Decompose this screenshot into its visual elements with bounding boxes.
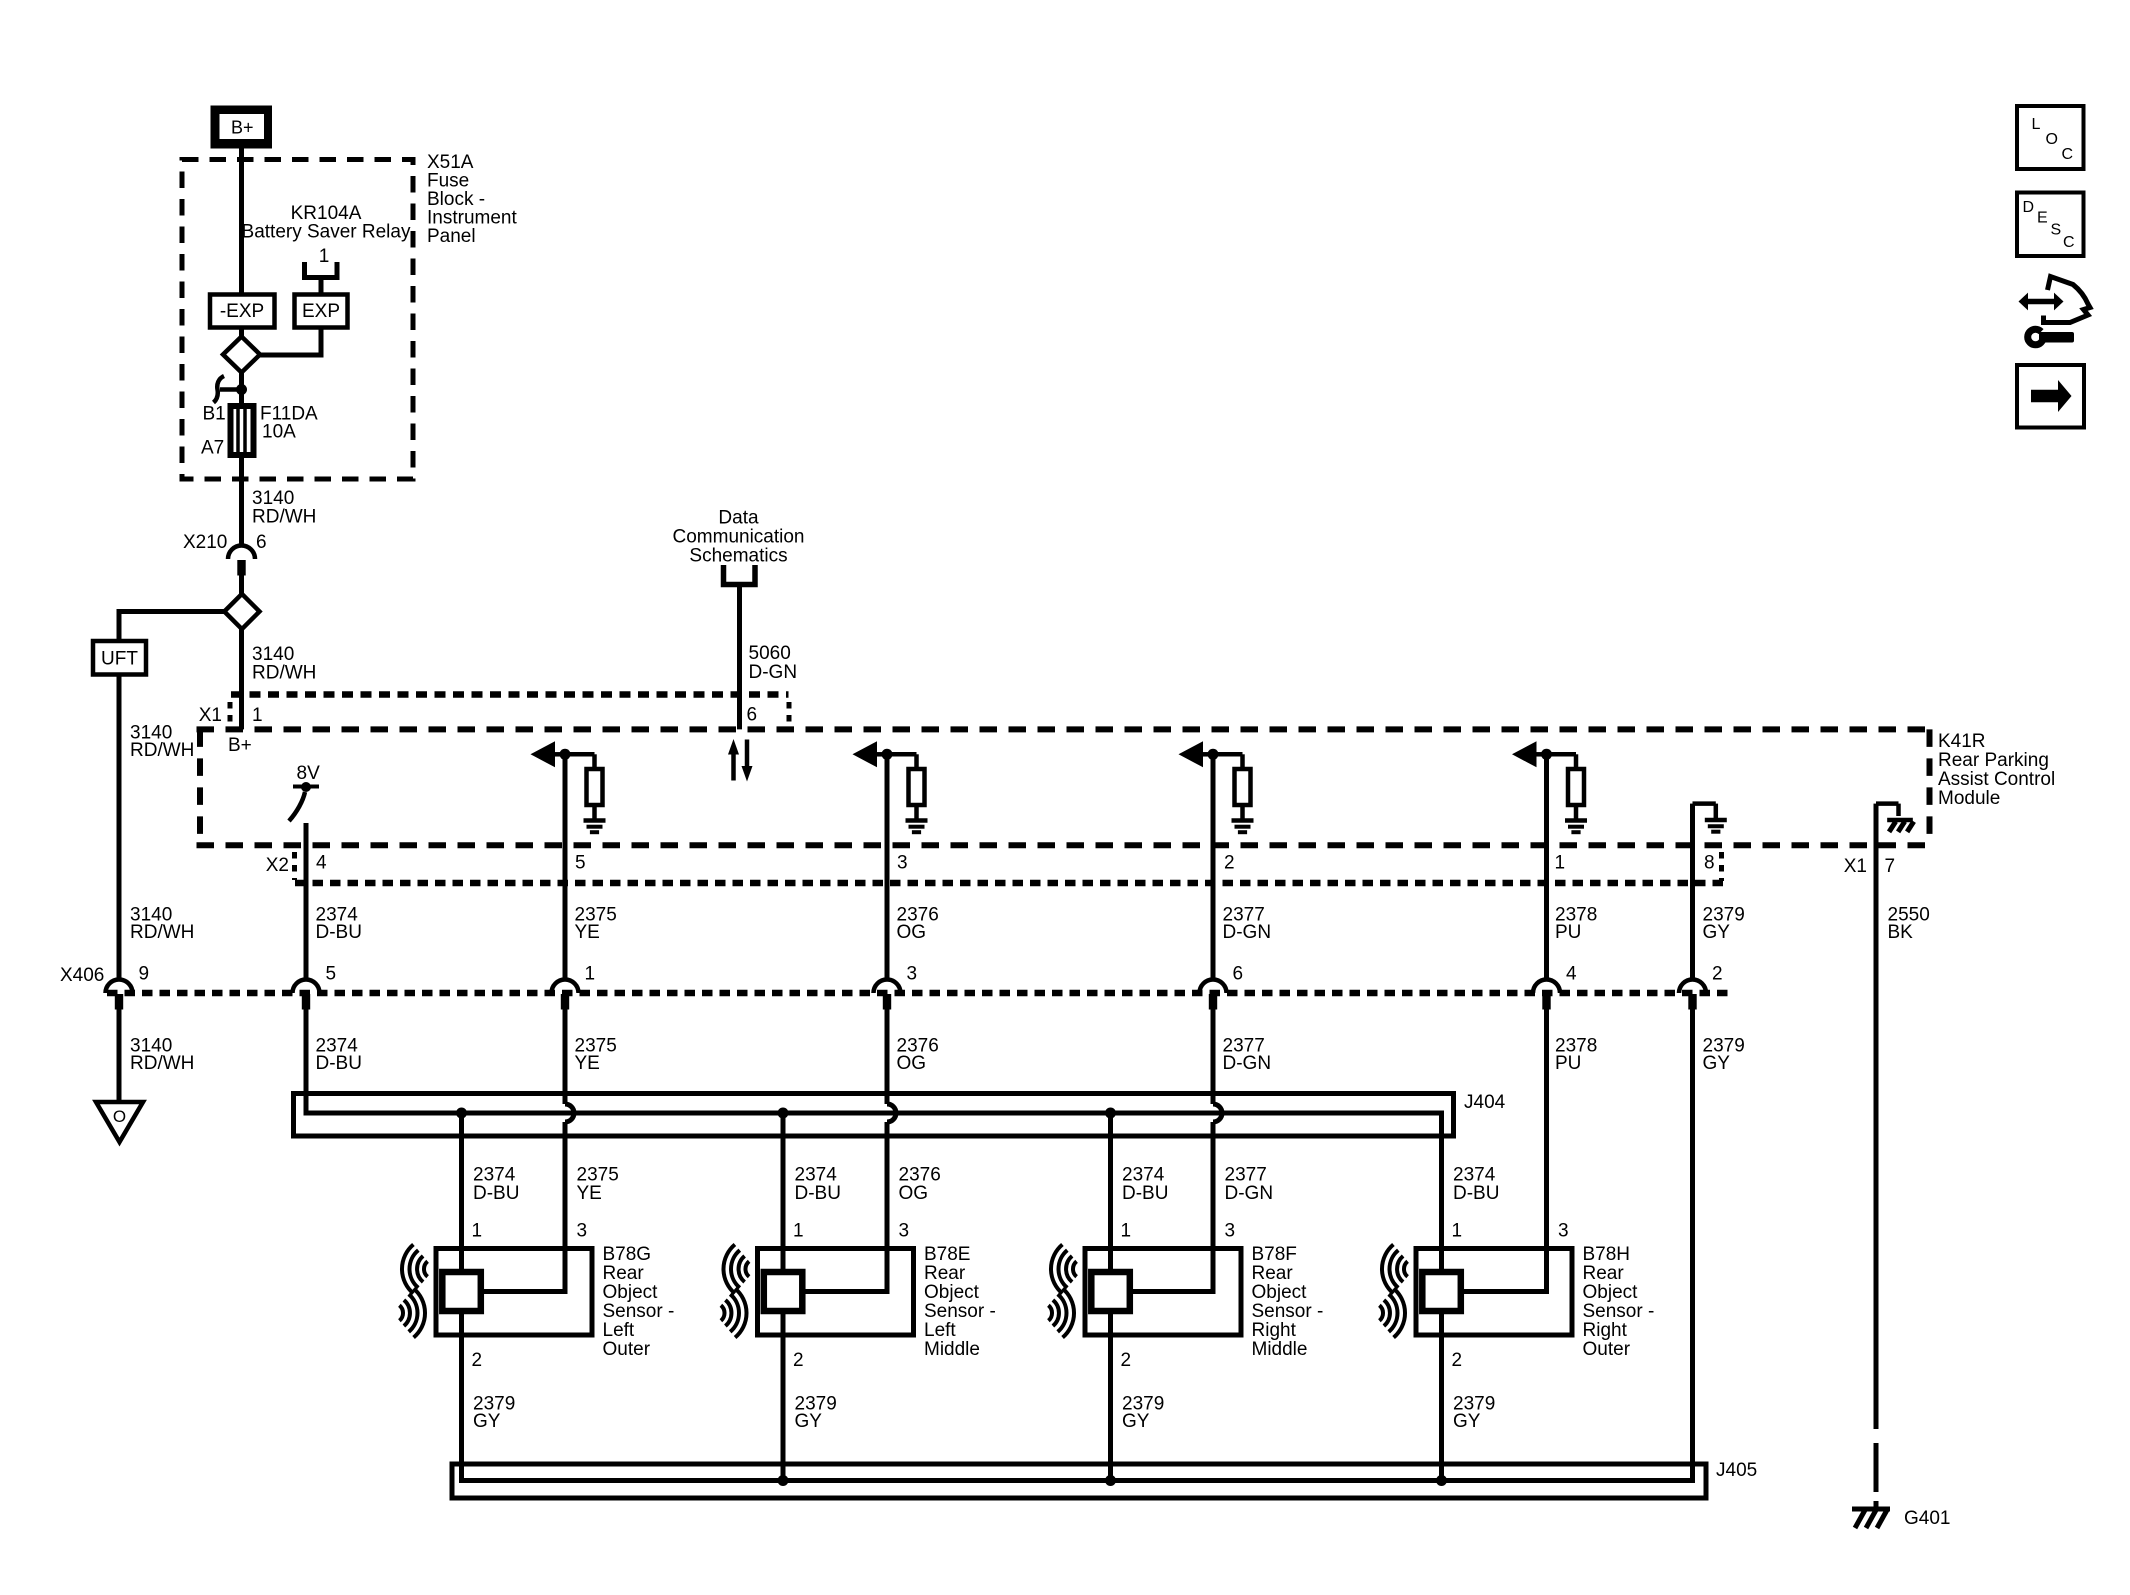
wire 3140 to O connector	[117, 1010, 122, 1103]
terminal B+	[211, 106, 273, 149]
svg-text:Rear: Rear	[1583, 1263, 1625, 1284]
junction dot J404	[1105, 1108, 1116, 1119]
wire 2374 to B78E pin1	[781, 1113, 786, 1272]
wire 2374 to B78G pin1	[459, 1113, 464, 1272]
junction dot J405	[778, 1475, 789, 1486]
wire 2376 pin3 to X406	[885, 754, 890, 980]
svg-text:Right: Right	[1583, 1320, 1628, 1341]
svg-text:7: 7	[1885, 856, 1896, 877]
icon DESC box	[2017, 193, 2084, 257]
wire 5060 D-GN down to module	[737, 587, 742, 729]
svg-text:RD/WH: RD/WH	[130, 922, 194, 943]
svg-text:1: 1	[1452, 1221, 1463, 1242]
svg-text:Rear: Rear	[1252, 1263, 1294, 1284]
ground	[1232, 818, 1254, 823]
svg-text:PU: PU	[1555, 922, 1581, 943]
svg-text:-EXP: -EXP	[220, 301, 264, 322]
B78E internal wire pin3 to transducer	[802, 1249, 887, 1292]
svg-text:B78E: B78E	[924, 1244, 970, 1265]
junction dot J405	[1105, 1475, 1116, 1486]
svg-text:1: 1	[1555, 853, 1566, 874]
X1 separator	[228, 702, 233, 728]
svg-text:BK: BK	[1888, 922, 1914, 943]
svg-text:Assist Control: Assist Control	[1938, 769, 2055, 790]
relay contact EXP box	[295, 295, 348, 328]
connector row X2 (dotted)	[295, 880, 1724, 887]
svg-text:6: 6	[747, 705, 758, 726]
svg-text:3: 3	[577, 1221, 588, 1242]
svg-text:D-BU: D-BU	[1122, 1183, 1168, 1204]
connector X406 at x=1692.5	[1679, 980, 1706, 994]
wire 2550 pin7 down	[1874, 806, 1879, 1429]
B78H ultrasonic wave arcs	[1404, 1261, 1408, 1276]
svg-text:GY: GY	[1703, 1053, 1731, 1074]
switch 8V	[293, 785, 319, 789]
rear object sensor B78F box	[1085, 1249, 1241, 1336]
ground G401	[1852, 1507, 1890, 1512]
junction diamond (fuse block)	[223, 337, 260, 373]
svg-text:D-GN: D-GN	[1223, 922, 1272, 943]
svg-text:2: 2	[1712, 964, 1723, 985]
junction dot	[1208, 749, 1219, 760]
svg-text:3: 3	[1558, 1221, 1569, 1242]
wire 2377 pin2 to X406	[1211, 754, 1216, 980]
signal arrow at module pin (wire x=1546.5)	[1512, 741, 1537, 767]
module K41R dashed box	[197, 726, 1930, 732]
svg-text:1: 1	[585, 964, 596, 985]
wire 2377 X406 to sensor B78F (hop over J404)	[1211, 1010, 1216, 1105]
svg-text:5: 5	[326, 964, 337, 985]
rear object sensor B78G box	[436, 1249, 592, 1336]
wire to resistor	[565, 752, 595, 757]
connector X406 at x=565	[552, 980, 579, 994]
svg-text:8V: 8V	[297, 763, 321, 784]
svg-text:Panel: Panel	[427, 226, 476, 247]
svg-text:D-BU: D-BU	[795, 1183, 841, 1204]
svg-text:6: 6	[1233, 964, 1244, 985]
svg-text:2: 2	[1452, 1350, 1463, 1371]
B78H transducer square	[1422, 1272, 1461, 1311]
svg-text:YE: YE	[575, 922, 600, 943]
wire diamond2 down to module pin B+	[239, 629, 244, 729]
X1 pin6 separator	[787, 702, 792, 728]
wire 2374 to B78F pin1	[1108, 1113, 1113, 1272]
svg-text:Object: Object	[924, 1282, 980, 1303]
off-page connector bracket	[724, 565, 756, 585]
icon vehicle outline	[2044, 277, 2091, 323]
icon double arrow	[2026, 299, 2056, 305]
wire diamond to fuse	[239, 373, 244, 407]
ground	[1565, 818, 1587, 823]
svg-text:O: O	[113, 1107, 126, 1126]
svg-text:Outer: Outer	[603, 1339, 651, 1360]
svg-text:Schematics: Schematics	[689, 546, 787, 567]
wire 2375 X406 to sensor B78G (hop over J404)	[563, 1010, 568, 1105]
connector X406 at x=119	[106, 980, 133, 993]
svg-text:Rear: Rear	[603, 1263, 645, 1284]
svg-text:K41R: K41R	[1938, 731, 1986, 752]
svg-text:1: 1	[1121, 1221, 1132, 1242]
svg-text:Right: Right	[1252, 1320, 1297, 1341]
svg-text:B78F: B78F	[1252, 1244, 1297, 1265]
junction dot	[1541, 749, 1552, 760]
wire 2379 sensor pin2 to J405	[1439, 1311, 1444, 1481]
B78E transducer square	[764, 1272, 803, 1311]
svg-text:Battery Saver Relay: Battery Saver Relay	[242, 222, 411, 243]
svg-text:B78H: B78H	[1583, 1244, 1631, 1265]
svg-text:10A: 10A	[262, 422, 296, 443]
B78F internal wire pin3 to transducer	[1130, 1249, 1213, 1292]
X2 separator	[292, 852, 297, 880]
svg-text:Outer: Outer	[1583, 1339, 1631, 1360]
svg-text:Left: Left	[924, 1320, 956, 1341]
svg-text:5060: 5060	[749, 643, 791, 664]
svg-text:2: 2	[793, 1350, 804, 1371]
svg-text:RD/WH: RD/WH	[252, 507, 316, 528]
junction dot J405	[1436, 1475, 1447, 1486]
svg-text:1: 1	[793, 1221, 804, 1242]
svg-text:D: D	[2023, 199, 2035, 216]
wire to resistor	[887, 752, 917, 757]
svg-text:L: L	[2032, 116, 2041, 133]
svg-text:C: C	[2063, 234, 2075, 251]
UFT box	[93, 641, 146, 675]
B78G transducer square	[442, 1272, 481, 1311]
svg-text:4: 4	[1566, 964, 1577, 985]
svg-text:O: O	[2046, 131, 2058, 148]
B78G internal wire pin3 to transducer	[481, 1249, 565, 1292]
wire 2374 X406 down into J404 bus and out to B78H pin1	[306, 1010, 1442, 1273]
svg-text:OG: OG	[899, 1183, 929, 1204]
junction dot J404	[456, 1108, 467, 1119]
svg-text:UFT: UFT	[101, 649, 138, 670]
junction dot J404	[778, 1108, 789, 1119]
wire 2375 pin5 to X406	[563, 754, 568, 980]
svg-text:Object: Object	[1583, 1282, 1639, 1303]
svg-text:J404: J404	[1464, 1092, 1506, 1113]
svg-text:D-BU: D-BU	[316, 1053, 362, 1074]
svg-text:2: 2	[472, 1350, 483, 1371]
svg-text:9: 9	[139, 964, 150, 985]
signal arrow at module pin (wire x=887)	[853, 741, 878, 767]
wire fuse to X210	[239, 455, 244, 546]
svg-text:B1: B1	[203, 404, 226, 425]
svg-text:Rear: Rear	[924, 1263, 966, 1284]
svg-text:B+: B+	[231, 118, 254, 138]
svg-text:RD/WH: RD/WH	[130, 740, 194, 761]
svg-text:X210: X210	[183, 532, 227, 553]
wire to resistor	[1213, 752, 1243, 757]
svg-text:4: 4	[316, 853, 327, 874]
svg-text:GY: GY	[473, 1411, 501, 1432]
wire EXP to diamond	[260, 328, 321, 356]
wire 2379 sensor pin2 to J405	[1108, 1311, 1113, 1481]
connector X406 at x=887	[874, 980, 901, 994]
resistor	[909, 769, 925, 805]
svg-text:YE: YE	[577, 1183, 602, 1204]
svg-text:GY: GY	[1703, 922, 1731, 943]
svg-text:B78G: B78G	[603, 1244, 652, 1265]
svg-text:GY: GY	[1453, 1411, 1481, 1432]
ground	[584, 818, 606, 823]
connector X210	[228, 546, 255, 560]
svg-text:8: 8	[1704, 853, 1715, 874]
icon arrow box	[2017, 365, 2084, 428]
connector X406 at x=306	[293, 980, 320, 994]
B78E ultrasonic wave arcs	[745, 1261, 749, 1276]
icon wrench	[2028, 329, 2044, 345]
svg-text:J405: J405	[1716, 1460, 1757, 1481]
X2 pin8 separator	[1719, 852, 1724, 881]
svg-text:1: 1	[319, 246, 330, 267]
splice pack J404 outline	[294, 1094, 1454, 1137]
svg-text:RD/WH: RD/WH	[252, 663, 316, 684]
svg-text:D-GN: D-GN	[1223, 1053, 1272, 1074]
svg-text:Left: Left	[603, 1320, 635, 1341]
connector row X406 (dotted)	[107, 990, 1733, 997]
svg-text:2: 2	[1121, 1350, 1132, 1371]
svg-text:Middle: Middle	[924, 1339, 980, 1360]
svg-text:X406: X406	[60, 965, 104, 986]
wire 2378 pin1 to X406	[1544, 754, 1549, 980]
svg-text:2: 2	[1224, 853, 1235, 874]
wire 2379 X406 down to J405 bus	[462, 1010, 1693, 1481]
svg-text:B+: B+	[228, 735, 252, 756]
svg-text:Sensor -: Sensor -	[1583, 1301, 1655, 1322]
signal arrow at module pin (wire x=1213)	[1179, 741, 1204, 767]
junction dot	[882, 749, 893, 760]
svg-text:Communication: Communication	[673, 527, 805, 548]
wire 2379 pin8 to X406	[1690, 806, 1695, 980]
svg-text:D-GN: D-GN	[1225, 1183, 1274, 1204]
svg-text:OG: OG	[897, 922, 927, 943]
svg-text:5: 5	[575, 853, 586, 874]
svg-text:A7: A7	[201, 438, 224, 459]
relay KR104A terminal bracket	[302, 262, 307, 278]
svg-text:OG: OG	[897, 1053, 927, 1074]
B78F transducer square	[1091, 1272, 1130, 1311]
resistor	[1568, 769, 1584, 805]
svg-text:3: 3	[897, 853, 908, 874]
wire -EXP to diamond	[239, 328, 244, 339]
connector X406 at x=1546.5	[1533, 980, 1560, 994]
svg-text:X2: X2	[266, 855, 289, 876]
wire 2374 pin4 to X406	[304, 823, 309, 980]
svg-text:Module: Module	[1938, 788, 2000, 809]
svg-text:Object: Object	[1252, 1282, 1308, 1303]
wire 2378 X406 to sensor B78H	[1544, 1010, 1549, 1292]
module pin8 internal ground	[1690, 804, 1695, 806]
svg-text:3: 3	[907, 964, 918, 985]
svg-text:E: E	[2037, 210, 2048, 227]
off-page triangle O	[96, 1102, 143, 1142]
connector X406 at x=1213	[1200, 980, 1227, 994]
svg-text:Rear Parking: Rear Parking	[1938, 750, 2049, 771]
svg-text:Object: Object	[603, 1282, 659, 1303]
connector row X1 (dotted)	[231, 691, 789, 698]
svg-text:X1: X1	[1844, 856, 1867, 877]
junction dot	[560, 749, 571, 760]
svg-text:RD/WH: RD/WH	[130, 1053, 194, 1074]
junction diamond 2	[224, 594, 259, 629]
svg-text:D-BU: D-BU	[316, 922, 362, 943]
B78G ultrasonic wave arcs	[424, 1261, 428, 1276]
svg-text:C: C	[2062, 146, 2074, 163]
svg-text:1: 1	[472, 1221, 483, 1242]
wire diamond2 branch left to UFT	[119, 609, 224, 614]
splice pack J405 outline	[452, 1464, 1706, 1498]
wire 2379 sensor pin2 to J405	[781, 1311, 786, 1481]
svg-text:D-BU: D-BU	[473, 1183, 519, 1204]
rear object sensor B78E box	[758, 1249, 914, 1336]
resistor	[1235, 769, 1251, 805]
fuse block X51A dashed box	[182, 160, 413, 480]
resistor	[587, 769, 603, 805]
svg-text:D-BU: D-BU	[1453, 1183, 1499, 1204]
svg-text:Sensor -: Sensor -	[1252, 1301, 1324, 1322]
wire B+ down to -EXP	[239, 149, 244, 296]
signal arrow at module pin (wire x=565)	[531, 741, 556, 767]
wire to resistor	[1547, 752, 1577, 757]
svg-text:3: 3	[899, 1221, 910, 1242]
data comm arrows	[731, 752, 736, 781]
svg-text:Sensor -: Sensor -	[603, 1301, 675, 1322]
svg-text:GY: GY	[1122, 1411, 1150, 1432]
icon LOC box	[2017, 106, 2084, 169]
svg-text:YE: YE	[575, 1053, 600, 1074]
B78F ultrasonic wave arcs	[1073, 1261, 1077, 1276]
wire X210 to diamond 2	[239, 576, 244, 596]
ground	[906, 818, 928, 823]
svg-text:Sensor -: Sensor -	[924, 1301, 996, 1322]
svg-text:1: 1	[252, 705, 263, 726]
wire 2376 X406 to sensor B78E (hop over J404)	[885, 1010, 890, 1105]
B78H internal wire pin3 to transducer	[1461, 1249, 1547, 1292]
module pin7 internal chassis ground	[1874, 804, 1879, 806]
svg-text:Data: Data	[718, 508, 759, 529]
rear object sensor B78H box	[1416, 1249, 1572, 1336]
relay contact -EXP box	[210, 295, 275, 328]
svg-text:PU: PU	[1555, 1053, 1581, 1074]
svg-text:Middle: Middle	[1252, 1339, 1308, 1360]
svg-text:S: S	[2051, 222, 2062, 239]
svg-text:G401: G401	[1904, 1508, 1950, 1529]
fuse F11DA 10A	[231, 406, 254, 455]
svg-text:D-GN: D-GN	[749, 662, 798, 683]
wire UFT down to X406	[117, 675, 122, 981]
svg-text:6: 6	[256, 532, 267, 553]
svg-text:GY: GY	[795, 1411, 823, 1432]
svg-text:X1: X1	[199, 705, 222, 726]
svg-text:3: 3	[1225, 1221, 1236, 1242]
svg-text:EXP: EXP	[302, 301, 340, 322]
clip symbol at fuse top	[214, 376, 225, 403]
